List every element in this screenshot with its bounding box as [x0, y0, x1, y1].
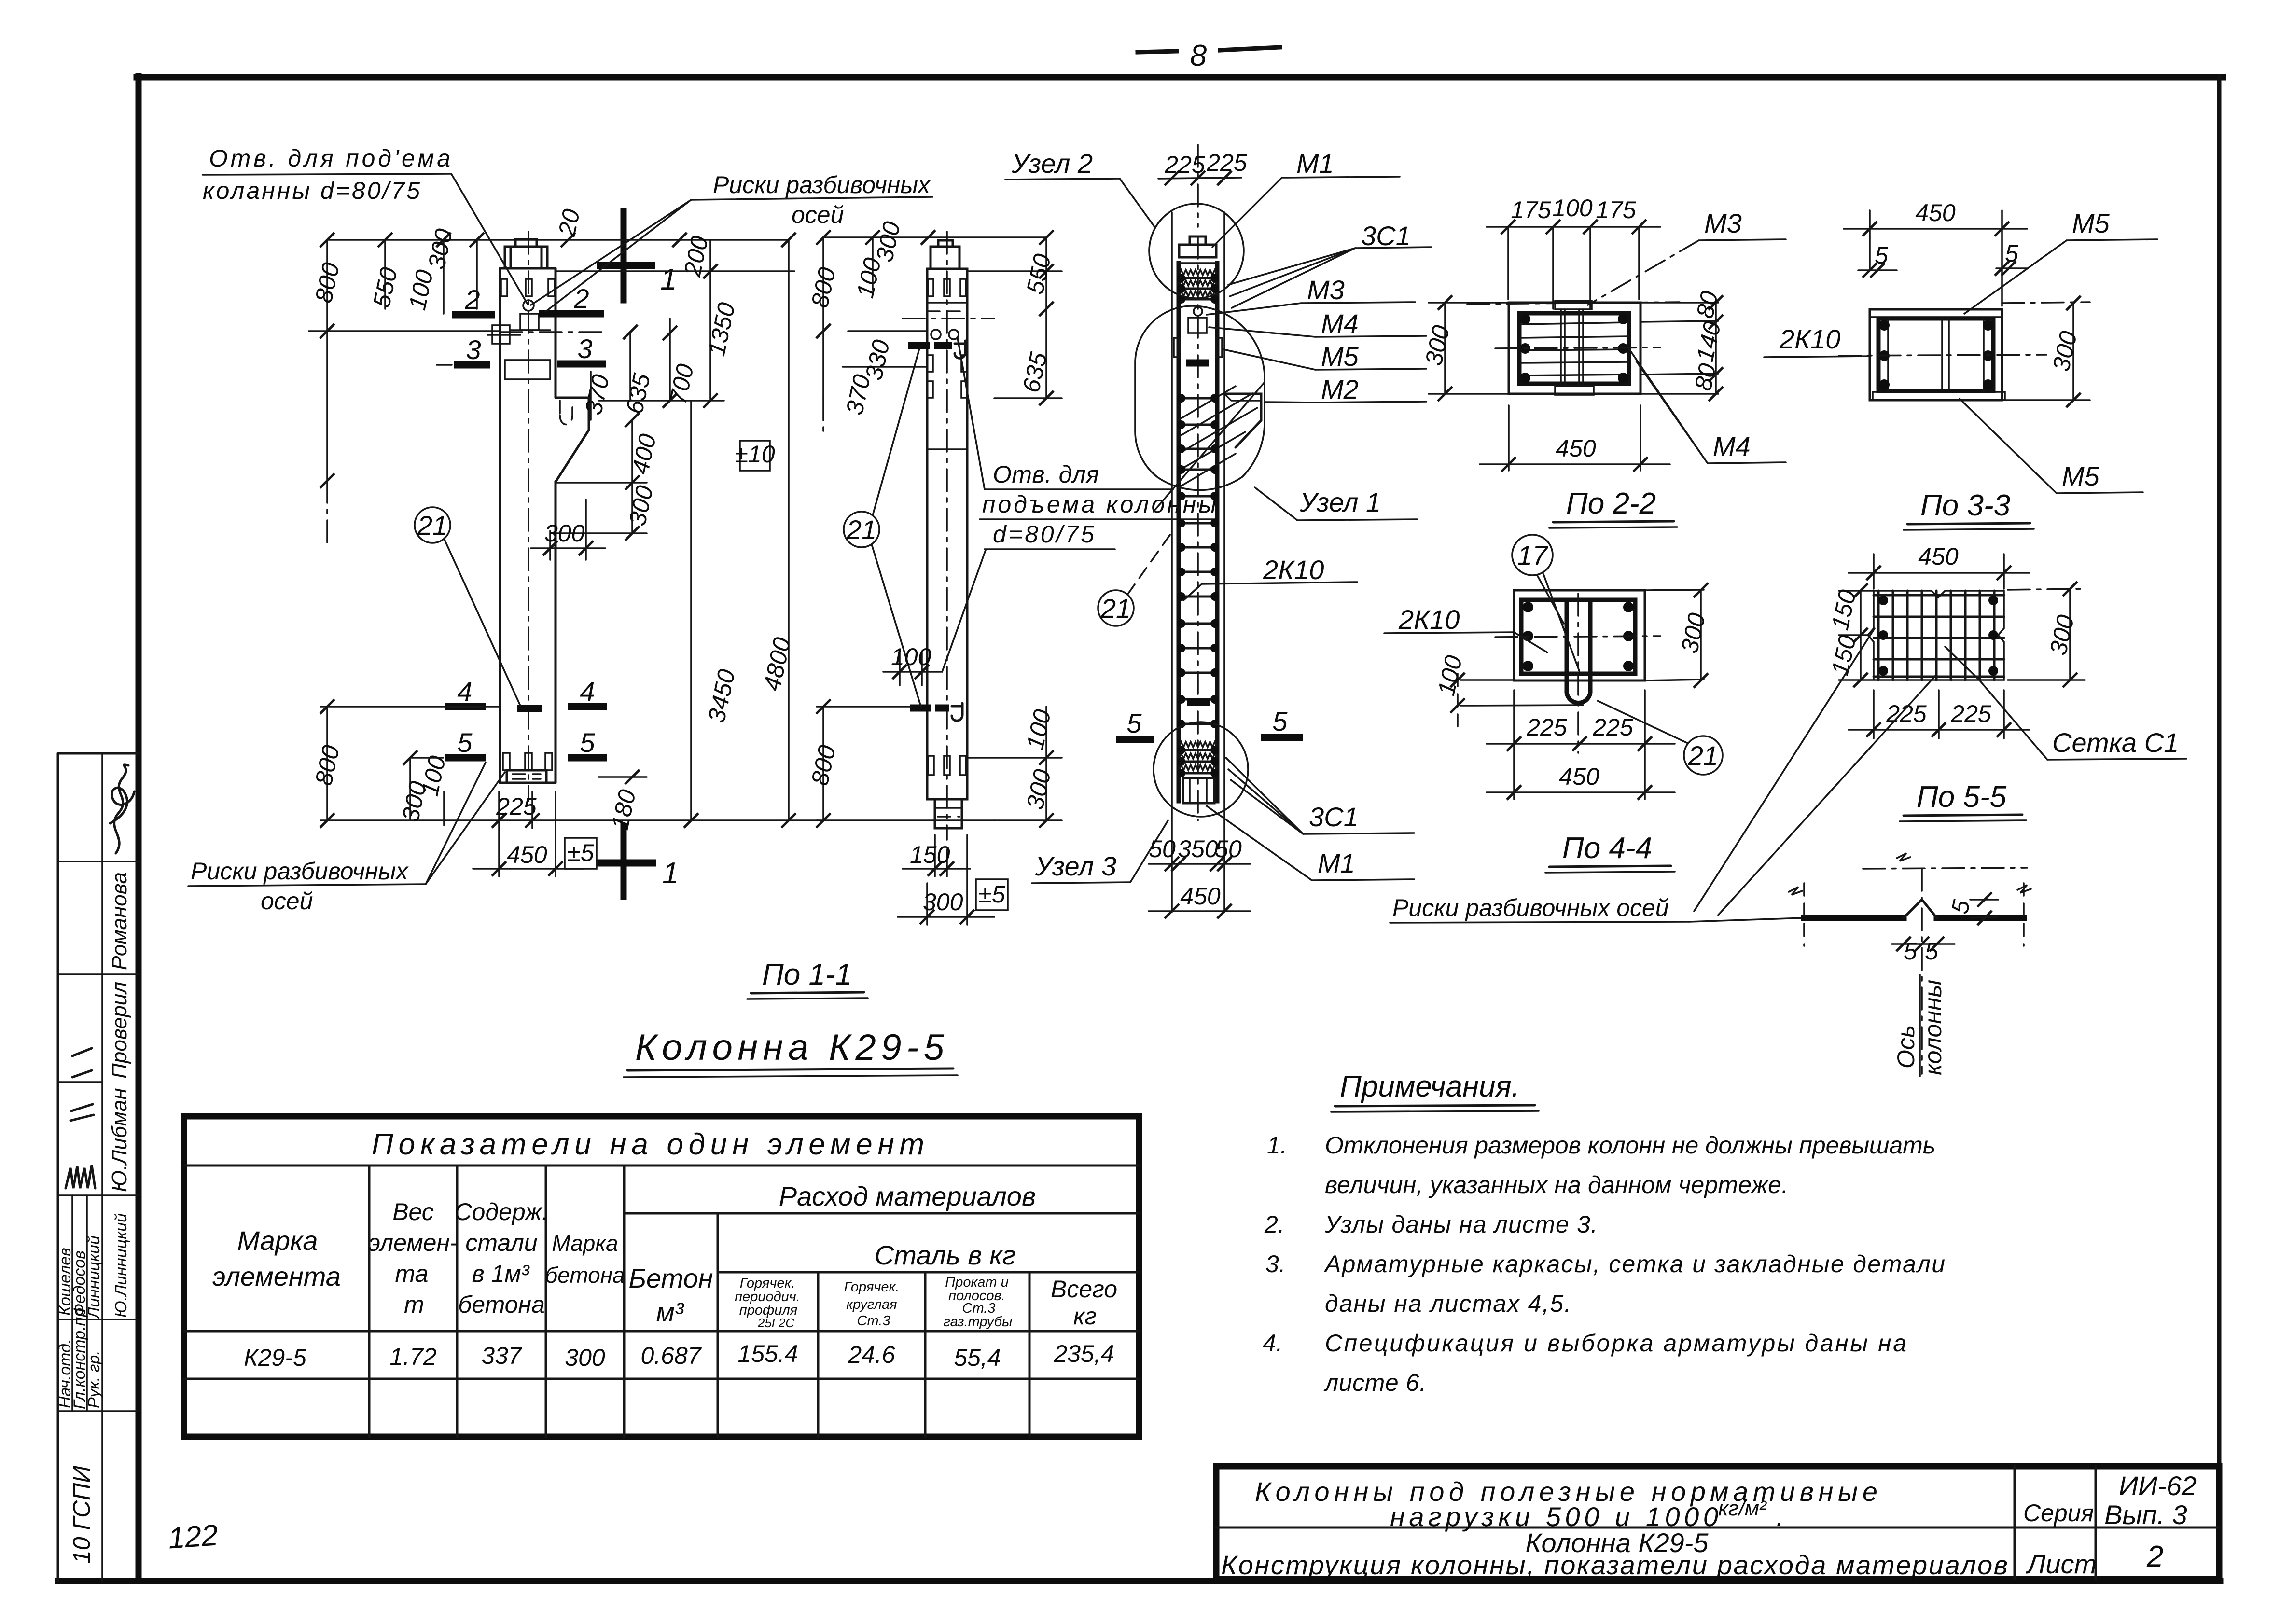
- svg-text:225: 225: [1592, 714, 1633, 741]
- svg-text:М1: М1: [1296, 148, 1334, 179]
- svg-text:8: 8: [1190, 39, 1207, 72]
- svg-text:По 2-2: По 2-2: [1566, 487, 1656, 520]
- svg-text:150: 150: [910, 841, 950, 868]
- svg-text:коланны d=80/75: коланны d=80/75: [203, 177, 420, 204]
- svg-text:Отклонения размеров колонн не: Отклонения размеров колонн не должны пре…: [1325, 1132, 1935, 1159]
- svg-text:Ст.3: Ст.3: [857, 1313, 890, 1329]
- svg-text:Содерж.: Содерж.: [455, 1198, 549, 1225]
- svg-text:4.: 4.: [1263, 1330, 1283, 1357]
- svg-text:24.6: 24.6: [848, 1341, 895, 1368]
- svg-text:осей: осей: [261, 888, 313, 915]
- svg-text:±5: ±5: [567, 839, 594, 866]
- svg-text:1: 1: [662, 857, 679, 890]
- svg-text:Горячек.: Горячек.: [844, 1279, 899, 1295]
- svg-text:Отв. для под'ема: Отв. для под'ема: [209, 145, 450, 172]
- svg-text:4: 4: [580, 676, 595, 707]
- svg-text:1.: 1.: [1267, 1132, 1287, 1159]
- svg-text:21: 21: [417, 510, 447, 541]
- svg-text:Узел 2: Узел 2: [1011, 148, 1093, 179]
- svg-text:Показатели на один элемент: Показатели на один элемент: [372, 1128, 924, 1161]
- svg-text:3.: 3.: [1265, 1250, 1286, 1277]
- svg-text:55,4: 55,4: [954, 1344, 1001, 1371]
- svg-text:25Г2С: 25Г2С: [757, 1316, 795, 1330]
- svg-text:элемен-: элемен-: [368, 1229, 458, 1256]
- svg-text:М5: М5: [1321, 341, 1359, 372]
- svg-text:Проверил: Проверил: [108, 982, 131, 1079]
- svg-text:колонны: колонны: [1919, 980, 1946, 1075]
- svg-text:Марка: Марка: [552, 1231, 618, 1256]
- svg-text:2К10: 2К10: [1779, 324, 1840, 354]
- svg-text:Расход материалов: Расход материалов: [779, 1181, 1036, 1211]
- svg-text:175: 175: [1511, 196, 1551, 223]
- svg-text:Риски разбивочных: Риски разбивочных: [191, 858, 409, 885]
- svg-text:155.4: 155.4: [737, 1340, 798, 1367]
- svg-text:Бетон: Бетон: [629, 1263, 713, 1293]
- svg-text:21: 21: [1100, 593, 1131, 624]
- svg-text:М4: М4: [1321, 308, 1359, 339]
- svg-text:225: 225: [1206, 149, 1247, 176]
- svg-text:в 1м³: в 1м³: [472, 1260, 530, 1287]
- svg-text:175: 175: [1596, 196, 1636, 223]
- svg-text:По 1-1: По 1-1: [762, 958, 852, 991]
- svg-text:450: 450: [1559, 763, 1599, 790]
- svg-text:3С1: 3С1: [1361, 221, 1411, 251]
- svg-text:Узел 3: Узел 3: [1035, 851, 1116, 881]
- svg-text:3: 3: [466, 334, 481, 365]
- svg-text:м³: м³: [656, 1297, 684, 1327]
- svg-text:±10: ±10: [735, 441, 775, 468]
- svg-text:±5: ±5: [978, 881, 1005, 908]
- svg-text:80: 80: [1691, 289, 1723, 320]
- svg-text:300: 300: [565, 1344, 605, 1371]
- svg-text:осей: осей: [792, 201, 844, 228]
- svg-text:300: 300: [923, 888, 963, 916]
- svg-text:4: 4: [457, 676, 472, 707]
- svg-text:та: та: [395, 1260, 429, 1287]
- svg-text:337: 337: [481, 1342, 523, 1369]
- svg-text:5: 5: [1272, 706, 1288, 736]
- svg-text:Вес: Вес: [392, 1198, 434, 1225]
- svg-text:Отв. для: Отв. для: [993, 461, 1099, 488]
- svg-text:величин, указанных на данном ч: величин, указанных на данном чертеже.: [1325, 1171, 1788, 1198]
- svg-text:235,4: 235,4: [1053, 1340, 1114, 1367]
- svg-text:кг/м²: кг/м²: [1718, 1497, 1767, 1520]
- svg-text:бетона: бетона: [545, 1263, 625, 1288]
- svg-text:Марка: Марка: [237, 1225, 318, 1256]
- svg-text:Арматурные каркасы, сетка и за: Арматурные каркасы, сетка и закладные де…: [1323, 1250, 1945, 1277]
- svg-text:М2: М2: [1321, 374, 1359, 404]
- svg-text:Лист: Лист: [2026, 1549, 2097, 1579]
- svg-text:50: 50: [1215, 835, 1242, 862]
- svg-text:225: 225: [1950, 700, 1991, 727]
- svg-text:300: 300: [544, 520, 585, 547]
- svg-text:5: 5: [580, 727, 595, 758]
- svg-text:Сетка С1: Сетка С1: [2052, 727, 2179, 758]
- svg-text:кг: кг: [1073, 1303, 1097, 1330]
- svg-text:3С1: 3С1: [1309, 802, 1359, 832]
- svg-text:М1: М1: [1318, 848, 1355, 878]
- svg-text:225: 225: [1526, 714, 1567, 741]
- svg-text:3: 3: [577, 333, 592, 364]
- svg-text:2.: 2.: [1264, 1211, 1285, 1238]
- svg-text:газ.трубы: газ.трубы: [944, 1314, 1013, 1330]
- svg-text:1.72: 1.72: [389, 1343, 437, 1370]
- svg-text:350: 350: [1178, 835, 1218, 862]
- svg-text:450: 450: [1556, 435, 1596, 462]
- svg-text:М5: М5: [2072, 208, 2110, 238]
- svg-text:Романова: Романова: [108, 872, 131, 970]
- svg-text:2К10: 2К10: [1398, 604, 1460, 635]
- svg-text:2К10: 2К10: [1263, 555, 1324, 585]
- svg-text:По 3-3: По 3-3: [1920, 489, 2010, 522]
- svg-text:Узел 1: Узел 1: [1299, 487, 1381, 517]
- svg-text:Всего: Всего: [1051, 1276, 1117, 1303]
- svg-text:М3: М3: [1307, 275, 1345, 305]
- svg-text:.: .: [1776, 1501, 1784, 1532]
- svg-text:т: т: [404, 1291, 424, 1318]
- svg-text:2: 2: [2146, 1540, 2163, 1573]
- svg-text:225: 225: [496, 793, 537, 820]
- svg-text:Риски разбивочных: Риски разбивочных: [713, 171, 931, 198]
- svg-text:По 5-5: По 5-5: [1917, 780, 2007, 814]
- svg-text:Риски разбивочных осей: Риски разбивочных осей: [1392, 894, 1669, 921]
- svg-text:0.687: 0.687: [640, 1342, 702, 1369]
- svg-text:21: 21: [846, 514, 876, 545]
- svg-text:элемента: элемента: [212, 1261, 341, 1291]
- svg-text:М3: М3: [1704, 208, 1742, 238]
- svg-text:По 4-4: По 4-4: [1562, 832, 1652, 865]
- svg-text:Ю.Либман: Ю.Либман: [108, 1088, 131, 1192]
- svg-text:стали: стали: [465, 1229, 537, 1256]
- svg-text:100: 100: [891, 643, 931, 670]
- svg-text:Узлы даны на листе 3.: Узлы даны на листе 3.: [1324, 1211, 1598, 1238]
- svg-text:бетона: бетона: [458, 1291, 545, 1318]
- svg-text:круглая: круглая: [846, 1297, 897, 1312]
- svg-text:Линницкий: Линницкий: [85, 1235, 103, 1319]
- svg-text:80: 80: [1689, 361, 1721, 393]
- svg-text:100: 100: [1552, 194, 1593, 222]
- svg-text:225: 225: [1164, 151, 1205, 178]
- svg-text:1: 1: [660, 263, 677, 296]
- svg-text:М4: М4: [1713, 431, 1751, 461]
- svg-text:Рук. гр.: Рук. гр.: [85, 1350, 103, 1408]
- svg-text:листе 6.: листе 6.: [1323, 1369, 1426, 1396]
- svg-text:Ось: Ось: [1892, 1025, 1919, 1069]
- svg-text:10 ГСПИ: 10 ГСПИ: [68, 1466, 95, 1564]
- svg-text:5: 5: [1126, 708, 1142, 738]
- svg-text:Примечания.: Примечания.: [1340, 1070, 1520, 1103]
- svg-text:122: 122: [167, 1518, 219, 1555]
- svg-text:Сталь в кг: Сталь в кг: [875, 1240, 1015, 1270]
- svg-text:50: 50: [1149, 835, 1176, 862]
- svg-text:Конструкция колонны, показате: Конструкция колонны, показатели расхода …: [1221, 1550, 2008, 1580]
- svg-text:450: 450: [1918, 543, 1959, 570]
- svg-text:М5: М5: [2062, 461, 2100, 491]
- svg-text:5: 5: [1904, 938, 1917, 965]
- svg-text:21: 21: [1688, 740, 1718, 771]
- svg-text:даны на листах 4,5.: даны на листах 4,5.: [1325, 1290, 1571, 1317]
- svg-text:Серия: Серия: [2023, 1499, 2094, 1527]
- svg-text:450: 450: [1180, 883, 1221, 910]
- svg-text:ИИ-62: ИИ-62: [2119, 1471, 2197, 1501]
- svg-text:Вып. 3: Вып. 3: [2104, 1499, 2187, 1530]
- svg-text:К29-5: К29-5: [244, 1344, 306, 1371]
- svg-text:450: 450: [1915, 199, 1956, 226]
- svg-text:450: 450: [507, 841, 547, 868]
- svg-text:20: 20: [553, 207, 585, 239]
- svg-text:5: 5: [1925, 938, 1938, 965]
- svg-text:Ю.Линницкий: Ю.Линницкий: [112, 1213, 130, 1318]
- svg-text:17: 17: [1517, 540, 1548, 570]
- svg-text:5: 5: [457, 727, 473, 758]
